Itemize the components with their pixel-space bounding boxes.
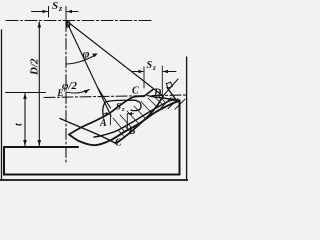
arc of angle phi with arrow [67, 55, 96, 64]
tick previous center position [48, 7, 50, 18]
right Sz arrows [132, 71, 143, 73]
svg-text:A: A [99, 118, 107, 129]
vertical centerline of cutter (dash-dot) [65, 21, 67, 163]
page frame rule right [186, 57, 188, 181]
small Sz ticks [109, 114, 111, 125]
chip cross-section blob outline [103, 100, 141, 118]
tick above O (current center) [65, 7, 67, 21]
page frame rule bottom [0, 179, 188, 181]
dash-dot line through cutting zone to the right [44, 95, 187, 98]
original surface level line (left) [6, 92, 46, 94]
arc of angle phi/2 with arrow [66, 90, 89, 94]
right Sz dimension ticks [143, 67, 145, 88]
svg-text:D: D [153, 88, 161, 99]
tooth path: rising branch from cusp to point C tick [69, 90, 153, 135]
svg-text:C: C [132, 86, 139, 97]
svg-text:D/2: D/2 [28, 58, 40, 76]
chip thickness a dimension near D [167, 88, 177, 101]
svg-text:φ: φ [83, 47, 90, 61]
hatching of chip crescent [113, 118, 124, 131]
small Sz dimension inside chip: line and arrows [104, 113, 110, 115]
small square symbol (label a) [166, 82, 172, 88]
tooth path: deep U curve from cusp to right corner [69, 101, 180, 145]
svg-text:φ/2: φ/2 [62, 80, 77, 92]
original surface right of D (solid) [150, 96, 180, 100]
page frame rule left [1, 30, 3, 181]
horizontal centerline through O (dash-dot) [6, 20, 151, 22]
svg-text:z: z [121, 106, 125, 113]
tooth path: arc from point C rising to point D [116, 96, 163, 143]
workpiece outline [4, 100, 180, 174]
ray at phi/2 from O [66, 21, 111, 117]
svg-text:S: S [116, 102, 121, 112]
tooth path: middle arc between cusp paths [94, 100, 171, 137]
svg-text:E: E [56, 89, 63, 99]
svg-text:z: z [152, 64, 156, 72]
depth of cut t dimension line [24, 93, 26, 146]
arc continuation beyond D [163, 79, 178, 96]
svg-text:S: S [52, 0, 58, 12]
short steep stroke in knot near A [98, 88, 111, 108]
feed per tooth Sz top dimension line with arrows [32, 11, 48, 13]
svg-text:B: B [128, 126, 136, 137]
tooth path: descending curve from centerline to point C [60, 119, 116, 144]
hatching below surface right of D [161, 98, 171, 108]
D/2 dimension line (vertical, with arrows) [38, 22, 40, 146]
svg-text:C: C [115, 138, 122, 149]
svg-text:S: S [147, 60, 153, 71]
radius line O-D (contact boundary) [66, 21, 163, 97]
svg-text:0: 0 [66, 20, 71, 31]
